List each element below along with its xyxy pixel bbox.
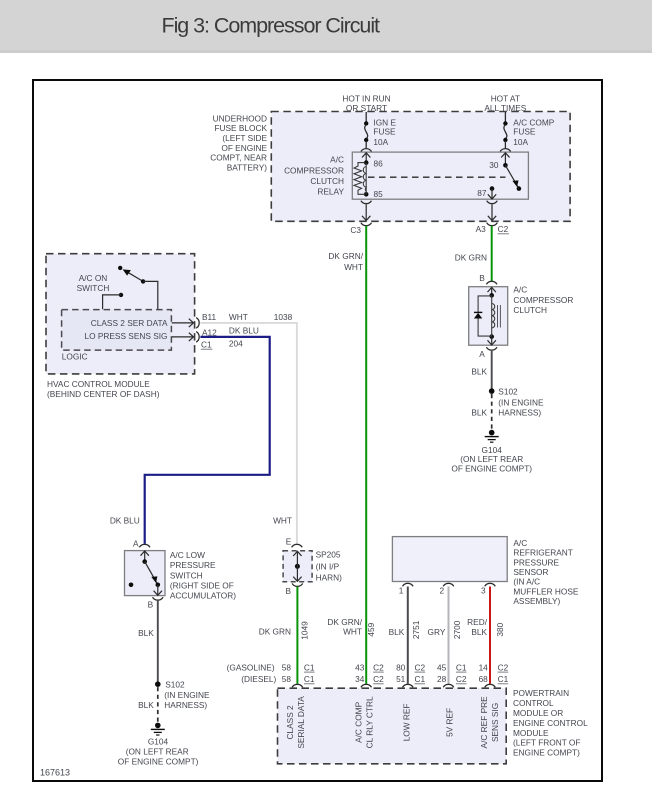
connector cup pressure switch pin A: [139, 544, 150, 547]
svg-text:SWITCH: SWITCH: [77, 283, 110, 293]
connector row 45 C1 / 28 C2: [437, 662, 467, 684]
HVAC module name label: [47, 379, 160, 399]
svg-text:204: 204: [229, 338, 243, 348]
svg-text:167613: 167613: [40, 768, 70, 778]
node HOT AT ALL TIMES: [484, 93, 526, 113]
svg-text:C1: C1: [415, 674, 426, 684]
svg-text:C1: C1: [304, 674, 315, 684]
svg-text:380: 380: [495, 622, 505, 636]
svg-text:WHT: WHT: [229, 312, 248, 322]
switch S2 low pressure contacts: [129, 559, 160, 587]
wire BLK S102 to G104 dashed (left): [157, 687, 159, 723]
svg-text:B: B: [285, 586, 291, 596]
pressure switch label: [170, 550, 236, 601]
svg-text:C2: C2: [498, 662, 509, 672]
svg-text:OR START: OR START: [346, 103, 387, 113]
wire DK GRN/WHT 459 relay C3 to PCM: [365, 226, 367, 684]
relay label: [284, 155, 344, 197]
connector cup wire 1049 into PCM: [292, 684, 303, 687]
svg-text:28: 28: [437, 674, 447, 684]
wire DK GRN relay A3/C2 to clutch B: [491, 226, 493, 282]
svg-text:CL RLY CTRL: CL RLY CTRL: [365, 696, 375, 748]
svg-text:ACCUMULATOR): ACCUMULATOR): [170, 591, 236, 601]
svg-text:A3: A3: [476, 224, 487, 234]
clutch label: [513, 285, 573, 316]
connector cup pressure switch pin B: [153, 597, 164, 600]
svg-text:A: A: [479, 349, 485, 359]
svg-text:34: 34: [355, 674, 365, 684]
svg-text:ENGINE COMPT): ENGINE COMPT): [513, 748, 580, 758]
switch S1 a/c on switch: [103, 266, 158, 310]
pressure switch pin A arrow: [141, 551, 149, 560]
svg-text:BATTERY): BATTERY): [227, 162, 267, 172]
svg-text:FUSE: FUSE: [513, 127, 536, 137]
svg-text:WHT: WHT: [344, 262, 363, 272]
svg-text:ENGINE CONTROL: ENGINE CONTROL: [513, 718, 588, 728]
svg-text:ASSEMBLY): ASSEMBLY): [513, 596, 560, 606]
svg-text:GRY: GRY: [428, 627, 446, 637]
svg-text:C2: C2: [373, 674, 384, 684]
relay coil-switch dashed link: [368, 176, 506, 178]
wire lo press sens sig to connector A12: [172, 333, 194, 341]
splice S102 (engine harness, right): [489, 387, 544, 418]
PCM name label: [513, 688, 588, 757]
wire BLK pressure switch to S102: [157, 601, 159, 682]
clutch pin B arrow: [488, 287, 496, 294]
svg-text:86: 86: [374, 158, 384, 168]
svg-text:G104: G104: [148, 736, 169, 746]
svg-text:(IN ENGINE: (IN ENGINE: [164, 690, 210, 700]
SP205 label: [316, 550, 343, 583]
svg-text:43: 43: [355, 662, 365, 672]
svg-text:REFRIGERANT: REFRIGERANT: [513, 548, 572, 558]
svg-text:FUSE BLOCK: FUSE BLOCK: [214, 123, 267, 133]
connector C2 label: [498, 224, 509, 234]
svg-text:C2: C2: [415, 662, 426, 672]
wire BLK S102 to G104 (dashed): [491, 394, 493, 430]
svg-text:3: 3: [481, 586, 486, 596]
svg-text:A: A: [133, 539, 139, 549]
svg-text:DK BLU: DK BLU: [110, 516, 140, 526]
wire hot-in-run feed: [365, 112, 367, 122]
svg-text:87: 87: [477, 188, 487, 198]
connector cup sensor pin 2: [443, 583, 454, 586]
relay coil K1: [354, 160, 369, 196]
wire GRY 2700 sensor 2 to PCM: [448, 587, 450, 684]
svg-text:DK GRN: DK GRN: [259, 627, 291, 637]
svg-text:CONTROL: CONTROL: [513, 698, 554, 708]
svg-text:WHT: WHT: [343, 627, 362, 637]
svg-text:(IN ENGINE: (IN ENGINE: [498, 398, 544, 408]
svg-text:S102: S102: [498, 387, 518, 397]
svg-text:SENSOR: SENSOR: [513, 567, 548, 577]
wire label DK GRN/WHT lower: [327, 617, 362, 637]
connector C1 label (hvac): [201, 339, 213, 349]
svg-text:C2: C2: [456, 674, 467, 684]
svg-text:(ON LEFT REAR: (ON LEFT REAR: [126, 747, 189, 757]
A/C refrigerant pressure sensor box: [392, 537, 507, 582]
svg-text:BLK: BLK: [138, 700, 154, 710]
connector cup clutch pin B: [486, 281, 497, 284]
svg-text:BLK: BLK: [138, 628, 154, 638]
connector cup SP205 pin E: [292, 544, 303, 547]
pressure switch pin B arrow: [154, 585, 162, 596]
relay pin 87: [488, 186, 496, 199]
connector cup A12: [196, 332, 199, 343]
svg-text:A/C: A/C: [513, 538, 527, 548]
svg-text:HARN): HARN): [316, 573, 343, 583]
sensor label: [513, 538, 578, 606]
svg-text:2: 2: [439, 586, 444, 596]
wire relay 85 to fuse block edge: [362, 205, 370, 221]
svg-text:1038: 1038: [274, 312, 293, 322]
wire DK GRN 1049 SP205 to PCM: [296, 587, 298, 684]
svg-text:CLUTCH: CLUTCH: [310, 176, 344, 186]
wire WHT 1038 B11 to SP205: [200, 323, 297, 544]
svg-text:58: 58: [282, 674, 292, 684]
svg-text:C1: C1: [498, 674, 509, 684]
svg-text:A/C REF PRE: A/C REF PRE: [479, 696, 489, 749]
svg-text:PRESSURE: PRESSURE: [170, 560, 216, 570]
underhood fuse block (dashed box): [271, 112, 570, 222]
connector row (GASOLINE) 58 C1: [227, 662, 315, 672]
svg-text:(GASOLINE): (GASOLINE): [227, 662, 275, 672]
ground G104 label (left): [118, 736, 199, 766]
svg-text:COMPT, NEAR: COMPT, NEAR: [210, 153, 267, 163]
wire label RED/BLK: [467, 617, 488, 637]
svg-text:CLASS 2 SER DATA: CLASS 2 SER DATA: [91, 318, 168, 328]
svg-text:FUSE: FUSE: [373, 127, 396, 137]
svg-text:HVAC CONTROL MODULE: HVAC CONTROL MODULE: [47, 379, 150, 389]
svg-text:RELAY: RELAY: [317, 187, 344, 197]
svg-text:10A: 10A: [373, 137, 388, 147]
svg-text:1: 1: [399, 586, 404, 596]
svg-text:C3: C3: [350, 225, 361, 235]
svg-text:SERIAL DATA: SERIAL DATA: [296, 696, 306, 749]
svg-text:(LEFT FRONT OF: (LEFT FRONT OF: [513, 738, 580, 748]
svg-text:LOGIC: LOGIC: [62, 352, 88, 362]
svg-text:HARNESS): HARNESS): [164, 700, 207, 710]
wire label DK GRN/WHT upper: [328, 251, 363, 272]
svg-text:85: 85: [374, 189, 384, 199]
relay box A/C compressor clutch relay: [352, 152, 528, 199]
svg-text:PRESSURE: PRESSURE: [513, 557, 559, 567]
connector cup sensor pin 3: [485, 583, 496, 586]
svg-text:(RIGHT SIDE OF: (RIGHT SIDE OF: [170, 581, 234, 591]
connector cup below relay pin 87: [487, 201, 498, 204]
svg-text:30: 30: [489, 160, 499, 170]
svg-text:80: 80: [396, 662, 406, 672]
svg-text:S102: S102: [165, 680, 185, 690]
HVAC logic box: [62, 310, 172, 351]
splice SP205 symbol: [293, 551, 301, 581]
header title bar: [0, 0, 652, 53]
connector row 80 C2 / 51 C1: [396, 662, 425, 684]
net CLASS 2 SERIAL DATA (vertical): [285, 696, 306, 749]
svg-text:(LEFT SIDE: (LEFT SIDE: [222, 133, 267, 143]
svg-text:RED/: RED/: [467, 617, 488, 627]
relay coil pin 86 arrow: [362, 153, 370, 162]
connector cup wire 380 into PCM: [485, 684, 496, 687]
svg-text:CLASS 2: CLASS 2: [285, 705, 295, 740]
svg-text:DK GRN/: DK GRN/: [327, 617, 362, 627]
connector row (DIESEL) 58 C1: [241, 674, 315, 684]
svg-text:DK GRN: DK GRN: [455, 253, 487, 263]
clutch diode D1: [474, 296, 492, 336]
wire BLK clutch to S102: [491, 351, 493, 389]
ground G104 (left): [151, 723, 165, 735]
svg-text:10A: 10A: [513, 137, 528, 147]
connector cup below relay pin 85: [361, 201, 372, 204]
svg-text:OF ENGINE COMPT): OF ENGINE COMPT): [451, 463, 532, 473]
svg-text:LO PRESS SENS SIG: LO PRESS SENS SIG: [85, 331, 168, 341]
connector cup SP205 pin B: [292, 583, 303, 586]
clutch coil L1: [489, 293, 500, 339]
svg-text:A/C COMP: A/C COMP: [354, 701, 364, 742]
wire RED/BLK 380 sensor 3 to PCM: [489, 587, 491, 684]
wire relay 87 to fuse block edge: [488, 205, 496, 221]
net A/C COMP CL RLY CTRL (vertical): [354, 696, 375, 748]
svg-text:ALL TIMES: ALL TIMES: [484, 103, 526, 113]
svg-text:A/C ON: A/C ON: [79, 273, 108, 283]
A/C low pressure switch box: [125, 551, 166, 596]
svg-text:68: 68: [479, 674, 489, 684]
svg-text:Fig 3: Compressor Circuit: Fig 3: Compressor Circuit: [162, 14, 381, 38]
svg-text:CLUTCH: CLUTCH: [513, 305, 547, 315]
connector cup into relay pin 30: [500, 149, 511, 152]
svg-text:E: E: [286, 536, 292, 546]
svg-text:DK BLU: DK BLU: [229, 325, 259, 335]
svg-text:DK GRN/: DK GRN/: [328, 251, 363, 261]
svg-text:BLK: BLK: [471, 408, 487, 418]
svg-text:1049: 1049: [299, 621, 309, 640]
ground G104 label (right): [451, 445, 532, 474]
connector cup sensor pin 1: [403, 583, 414, 586]
connector cup B11: [196, 318, 199, 329]
clutch pin A arrow: [488, 338, 496, 346]
svg-text:SWITCH: SWITCH: [170, 570, 203, 580]
net A/C REF PRE SENS SIG (vertical): [479, 696, 500, 749]
fuse IGN E 10A: [364, 118, 396, 149]
svg-text:BLK: BLK: [471, 627, 487, 637]
svg-text:BLK: BLK: [389, 627, 405, 637]
wire BLK 2751 sensor 1 to PCM: [407, 587, 409, 684]
svg-text:BLK: BLK: [471, 367, 487, 377]
svg-text:459: 459: [366, 622, 376, 636]
svg-text:B: B: [479, 273, 485, 283]
wire hot-at-all-times feed: [504, 112, 506, 122]
svg-text:MUFFLER HOSE: MUFFLER HOSE: [513, 586, 578, 596]
svg-text:(IN I/P: (IN I/P: [316, 562, 340, 572]
connector cup wire 2700 into PCM: [443, 684, 454, 687]
svg-text:COMPRESSOR: COMPRESSOR: [284, 165, 344, 175]
relay switch blade 30-87: [503, 163, 521, 191]
svg-text:C1: C1: [201, 339, 212, 349]
svg-text:A/C LOW: A/C LOW: [170, 550, 205, 560]
ground G104 (right): [485, 430, 499, 442]
connector cup wire 459 into PCM: [361, 684, 372, 687]
fuse A/C COMP 10A: [503, 118, 555, 149]
svg-text:LOW REF: LOW REF: [402, 703, 412, 741]
underhood fuse block label: [210, 113, 267, 172]
svg-text:UNDERHOOD: UNDERHOOD: [213, 113, 267, 123]
svg-text:14: 14: [479, 662, 489, 672]
svg-text:OF ENGINE: OF ENGINE: [221, 143, 267, 153]
svg-text:(BEHIND CENTER OF DASH): (BEHIND CENTER OF DASH): [47, 389, 160, 399]
A/C compressor clutch box: [469, 287, 508, 346]
connector cup clutch pin A: [486, 347, 497, 350]
wire class 2 ser data to connector B11: [172, 319, 194, 327]
A/C ON SWITCH label: [77, 273, 110, 293]
svg-text:(DIESEL): (DIESEL): [241, 674, 276, 684]
svg-text:(IN A/C: (IN A/C: [513, 577, 540, 587]
connector A3 C2 cup: [487, 223, 498, 226]
svg-text:45: 45: [437, 662, 447, 672]
connector cup into relay pin 86: [361, 149, 372, 152]
connector row 43 C2 / 34 C2: [355, 662, 384, 684]
svg-text:HARNESS): HARNESS): [498, 408, 541, 418]
HVAC control module (dashed box): [46, 254, 195, 374]
svg-text:SENS SIG: SENS SIG: [490, 703, 500, 742]
svg-text:WHT: WHT: [273, 516, 292, 526]
svg-text:5V REF: 5V REF: [445, 708, 455, 737]
diagram border frame: [33, 80, 602, 781]
svg-text:POWERTRAIN: POWERTRAIN: [513, 688, 569, 698]
connector cup wire 2751 into PCM: [403, 684, 414, 687]
svg-text:OF ENGINE COMPT): OF ENGINE COMPT): [118, 757, 199, 767]
svg-text:A/C: A/C: [513, 285, 527, 295]
splice SP205 box: [283, 551, 312, 582]
svg-text:B11: B11: [202, 312, 217, 322]
svg-text:SP205: SP205: [316, 550, 341, 560]
connector row 14 C2 / 68 C1: [479, 662, 509, 684]
node HOT IN RUN OR START: [342, 93, 390, 113]
svg-text:C1: C1: [304, 662, 315, 672]
powertrain control module (dashed box): [278, 688, 507, 764]
svg-text:B: B: [148, 599, 154, 609]
svg-text:C2: C2: [373, 662, 384, 672]
svg-text:2700: 2700: [452, 620, 462, 639]
svg-text:A/C: A/C: [330, 155, 344, 165]
svg-text:COMPRESSOR: COMPRESSOR: [513, 295, 573, 305]
svg-text:C2: C2: [498, 224, 509, 234]
connector C3 cup: [361, 223, 372, 226]
wire DK BLU 204 A12 to pressure switch: [145, 337, 270, 544]
svg-text:C1: C1: [456, 662, 467, 672]
svg-text:MODULE OR: MODULE OR: [513, 708, 563, 718]
svg-text:58: 58: [282, 662, 292, 672]
relay pin 30 arrow: [501, 153, 509, 164]
svg-text:HOT AT: HOT AT: [491, 93, 520, 103]
svg-text:2751: 2751: [411, 620, 421, 639]
splice S102 (engine harness, left): [155, 680, 210, 710]
svg-text:HOT IN RUN: HOT IN RUN: [342, 93, 390, 103]
svg-text:51: 51: [396, 674, 406, 684]
svg-text:MODULE: MODULE: [513, 728, 549, 738]
